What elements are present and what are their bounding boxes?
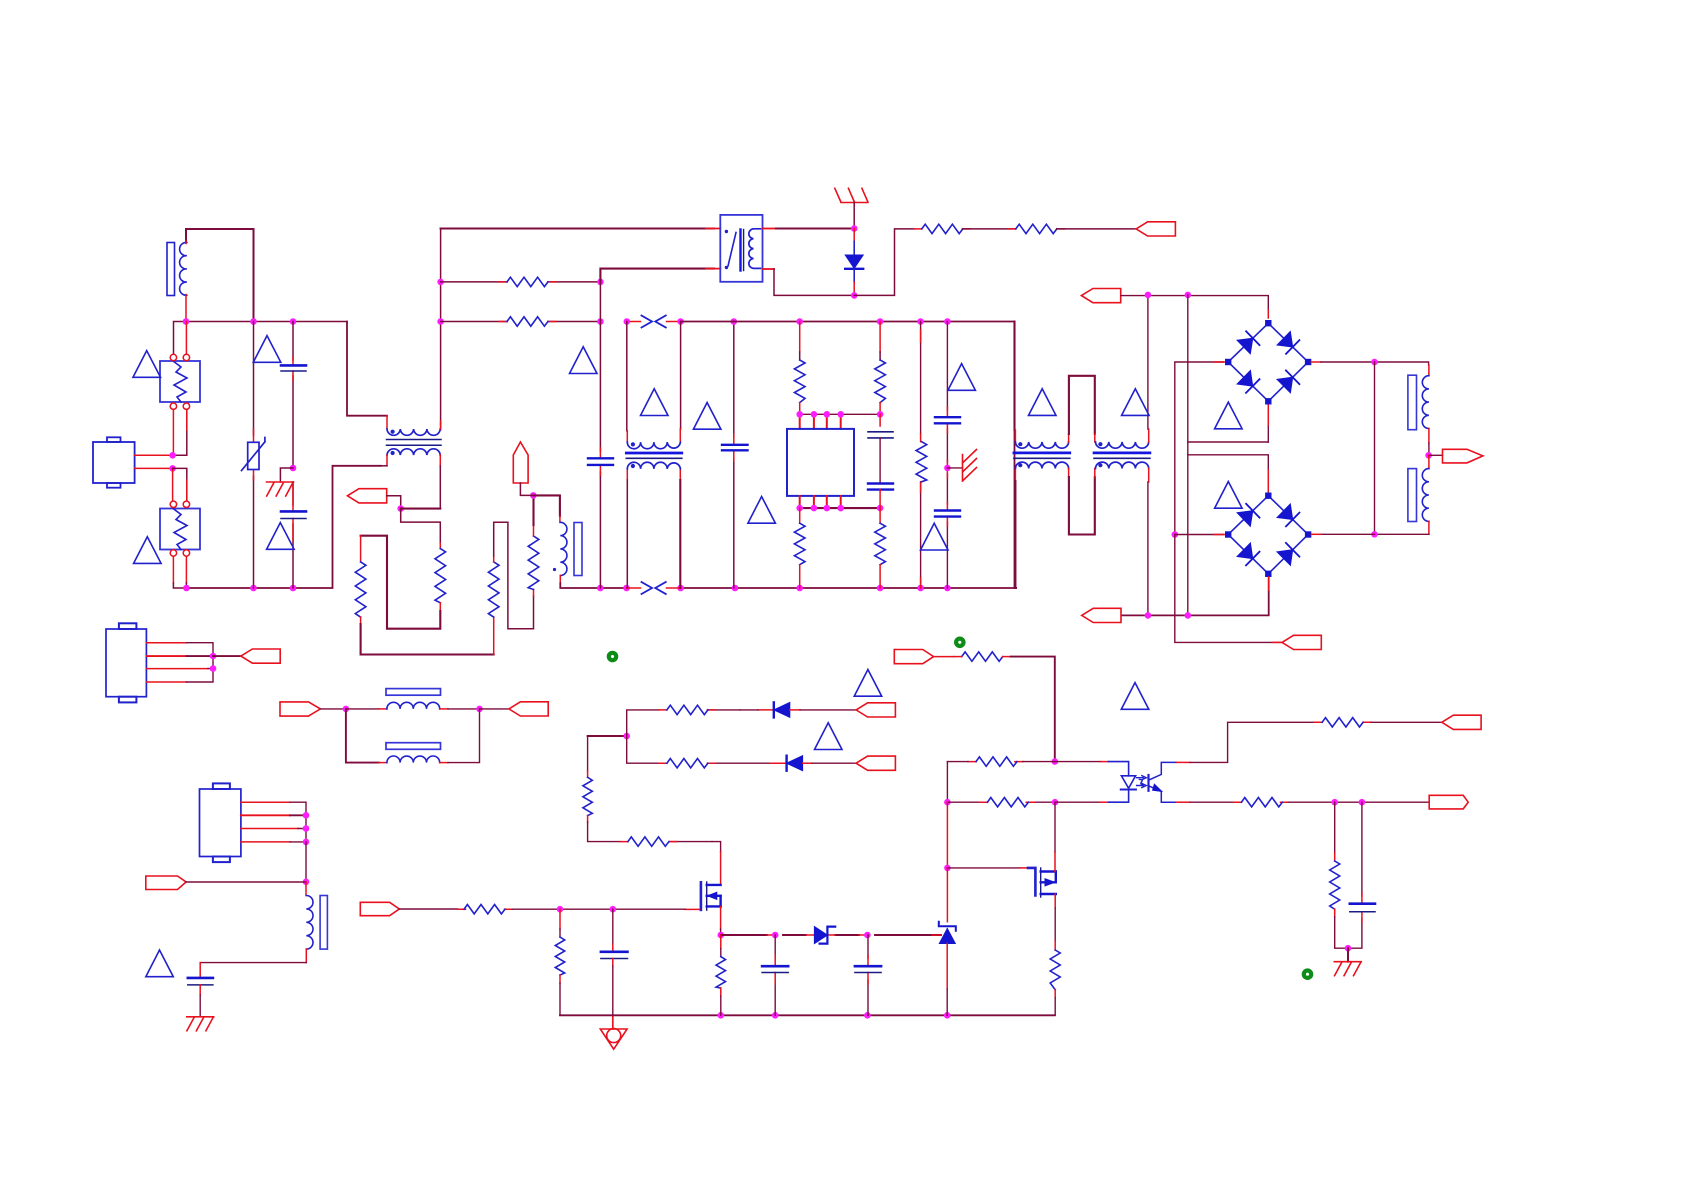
- MOSFET Q2: [1028, 868, 1035, 896]
- wire B2 left vertex branch: [1175, 534, 1224, 536]
- wire output node to L4: [1428, 455, 1430, 468]
- wire transformer T3 right terminals: [680, 322, 682, 430]
- wire R23 row: [947, 801, 1055, 803]
- node J3 bus junctions: [303, 812, 310, 819]
- wire inductor pins (red stubs): [185, 241, 187, 322]
- port PORT14 (right-pointing): [894, 650, 933, 664]
- wire Q2 gate row: [946, 802, 948, 868]
- capacitor C8: [188, 977, 213, 980]
- IC U1 box: [787, 429, 854, 496]
- wire R21 to opto feed corner: [1003, 656, 1011, 658]
- node opto feed junction: [1052, 758, 1059, 765]
- test point TP1: [609, 653, 616, 660]
- wire J1 pin2: [135, 467, 173, 469]
- connector J2 bottom tab: [119, 697, 136, 703]
- node bottom rail junction 3: [290, 585, 297, 592]
- wire L6 loop right: [440, 762, 448, 764]
- diode B1-D3 (left-bottom edge): [1228, 362, 1268, 401]
- wire choke bridge bottom (u-shape): [1068, 468, 1070, 477]
- wire B2 top vertex branch: [1188, 455, 1269, 470]
- wire R4 to port: [1057, 228, 1136, 230]
- node ladder junction: [397, 505, 404, 512]
- power ground flag PGND: [600, 1029, 627, 1049]
- wire bridge tie vertical: [1374, 362, 1376, 534]
- wire zener feed: [946, 868, 948, 922]
- transformer T3 bottom coil: [627, 462, 680, 469]
- capacitor C3: [868, 482, 893, 484]
- diode B2-D4 (bottom-right edge): [1268, 535, 1308, 574]
- inductor L6: [387, 756, 440, 763]
- wire choke T2 top right to feeder: [440, 424, 442, 429]
- choke T2 polarity dot bottom: [391, 451, 395, 455]
- wire port3 to junction: [520, 483, 533, 495]
- node diode bottom: [851, 292, 858, 299]
- wire X-cap column lower: [292, 482, 294, 588]
- node secondary rail junctions: [1145, 612, 1152, 619]
- wire transformer T3 left terminals: [626, 322, 628, 431]
- node B1 vertices: [1265, 320, 1271, 326]
- node L5 left junction: [343, 706, 350, 713]
- choke T4b bottom coil: [1096, 462, 1149, 468]
- pin IC bottom pins: [800, 496, 841, 508]
- node source rail junction C6: [864, 932, 871, 939]
- triangle marker TM7: [748, 497, 776, 524]
- wire Q2 source down through R27: [1054, 894, 1056, 908]
- wire port to junction: [186, 881, 306, 883]
- resistor R9 column x=799.7 upper: [799, 322, 801, 353]
- wire J2 pin1: [146, 642, 186, 644]
- inductor L1: [180, 242, 187, 295]
- wire F1 bottom pins to junction: [172, 410, 174, 456]
- wire x=600 vertical between junctions: [599, 282, 601, 322]
- wire L6 loop left: [346, 709, 379, 763]
- node Q1 source junction: [718, 932, 725, 939]
- wire thermistor bottom to mid rail: [559, 576, 561, 584]
- choke T4b core: [1094, 452, 1150, 455]
- triangle marker TB1: [1215, 402, 1243, 429]
- resistor R8 (ladder): [528, 536, 539, 590]
- port PORT16 (right-pointing): [1429, 795, 1468, 809]
- wire row2 to port: [812, 762, 856, 764]
- thermistor/inductor L2 coil: [560, 522, 567, 575]
- wire J3 pin1: [241, 801, 290, 803]
- wire step to chassis ground: [280, 468, 293, 482]
- port PORT3 (up-pointing): [513, 442, 528, 483]
- node J1 pin2 junction: [169, 465, 176, 472]
- wire secondary bottom rail: [1122, 578, 1269, 615]
- relay K1 core: [739, 230, 741, 271]
- wire choke T2 bottom left to bottom rail: [386, 455, 388, 466]
- wire F1 bottom right pin step: [173, 410, 187, 456]
- wire F1 top pins to rail: [185, 322, 187, 355]
- resistor R26 (to ground): [1334, 802, 1336, 853]
- wire J2 pin3: [146, 668, 208, 670]
- resistor R18: [464, 905, 505, 914]
- node feeder junction R2: [437, 318, 444, 325]
- chassis ground GND3 (rotated): [963, 450, 977, 482]
- wire R7 top to R8 bottom loop: [493, 556, 495, 562]
- connector J3 body: [200, 789, 241, 857]
- wire relay coil return rail: [600, 269, 714, 282]
- resistor R12 column x=880.1 lower: [879, 508, 881, 523]
- triangle marker TM14: [854, 670, 882, 697]
- connector J1 (AC inlet): [93, 442, 135, 483]
- chassis ground GND2 (above diode): [835, 188, 868, 202]
- wire L4 bottom to B2 right vertex: [1428, 521, 1430, 534]
- chassis ground GND5: [187, 1017, 214, 1031]
- relay K1 coil: [749, 229, 761, 269]
- node diode top: [851, 225, 858, 232]
- connector J2 top tab: [119, 623, 136, 629]
- resistor R19 (gate pull-down): [559, 909, 561, 929]
- relay K1 switch: [728, 233, 736, 267]
- diode D1 (relay flyback): [853, 229, 855, 242]
- port PORT11 (left-pointing): [856, 703, 895, 717]
- wire junction to R6 top: [401, 509, 441, 543]
- wire x=1187.8 vertical: [1187, 295, 1189, 616]
- pin F1-2: [183, 354, 189, 360]
- port PORT8 (left-pointing): [241, 649, 280, 663]
- node gate RC junction 1: [557, 906, 564, 913]
- wire R18 to Q1 gate with junctions: [512, 908, 685, 910]
- choke T4a polarity dots: [1018, 442, 1022, 446]
- resistor R11 column x=799.7 lower: [799, 508, 801, 523]
- triangle marker TB2: [1215, 482, 1243, 509]
- triangle marker TM8: [693, 403, 721, 430]
- wire B1 right vertex to L3: [1311, 361, 1321, 363]
- inductor L3 core bar: [1408, 375, 1417, 430]
- inductor L7 core bar: [320, 896, 327, 950]
- choke T2 top coil: [387, 429, 440, 435]
- diode D2: [773, 702, 775, 717]
- wire port to ladder junction: [387, 496, 401, 509]
- triangle marker TM5: [948, 364, 976, 391]
- resistor R1: [507, 277, 548, 286]
- wire choke T4b bottom-right down to rail: [1148, 468, 1150, 482]
- wire cap to chassis ground: [199, 985, 201, 995]
- port PORT4 (DC+, left-pointing): [1081, 289, 1120, 303]
- wire R24 to port: [1371, 721, 1442, 723]
- pin F2-2: [183, 501, 189, 507]
- transformer T3 polarity dots: [631, 442, 635, 446]
- node Q2 drain junction: [1052, 799, 1059, 806]
- port PORT2 (EMI, left-pointing): [347, 489, 386, 503]
- inductor L3: [1422, 376, 1429, 429]
- wire Q1 source down: [720, 906, 722, 929]
- node B2 left junction: [1172, 531, 1179, 538]
- node feeder junction R1: [437, 279, 444, 286]
- diode B2-D2 (top-right edge): [1268, 496, 1308, 535]
- node rail junction 3: [290, 318, 297, 325]
- wire bottom rail left section: [186, 466, 381, 588]
- triangle marker TM11: [641, 389, 669, 416]
- pin F1-1: [170, 354, 176, 360]
- capacitor CX2 column: [599, 322, 601, 589]
- wire diode bottom loop up to R3 row: [854, 229, 914, 296]
- inductor L1 core bar: [167, 243, 175, 296]
- resistor R21: [962, 652, 1003, 661]
- wire opto emitter out: [1176, 801, 1190, 803]
- wire R1 row: [441, 281, 601, 283]
- capacitor CX1: [281, 364, 306, 367]
- wire R2 row: [441, 321, 601, 323]
- node source rail junction C5: [772, 932, 779, 939]
- wire J1 pin1: [135, 454, 173, 456]
- node IC bottom pin junctions: [796, 505, 803, 512]
- resistor R15: [667, 759, 708, 768]
- optocoupler U2 light arrows: [1137, 776, 1147, 780]
- spark gap SG2 (bottom): [627, 587, 681, 589]
- resistor R3: [922, 224, 963, 233]
- capacitor C5: [774, 935, 776, 1015]
- wire source rail: [721, 934, 941, 936]
- wire relay to diode top rail: [763, 228, 777, 230]
- wire MOV column: [253, 322, 255, 589]
- wire opto LED cathode row: [1055, 801, 1101, 803]
- port PORT12 (left-pointing): [856, 756, 895, 770]
- capacitor CY1: [281, 510, 306, 513]
- wire R16 bottom to R17: [587, 816, 589, 822]
- wire R8 top to PSON port junction: [533, 525, 535, 536]
- capacitor C2 stack x=880.1: [879, 414, 881, 426]
- wire IC bottom pin bus: [800, 507, 880, 509]
- connector J3 bottom tab: [213, 857, 230, 863]
- wire IC top pin bus: [800, 413, 880, 415]
- wire R5 bottom to R7 bottom: [360, 617, 362, 624]
- resistor R13 column x=920.6: [920, 322, 922, 589]
- wire port to R21: [934, 656, 954, 658]
- diode D4 (schottky): [814, 927, 827, 944]
- resistor R27: [1050, 950, 1060, 990]
- wire junction down to L7: [305, 882, 307, 896]
- pin IC top pins: [800, 414, 841, 429]
- triangle marker TM12: [1029, 389, 1057, 416]
- wire choke T4b top-right up to DC rail: [1148, 429, 1150, 442]
- wire X-cap column upper: [292, 322, 294, 469]
- wire to chassis ground right: [947, 467, 962, 469]
- triangle marker TM4: [134, 537, 162, 564]
- wire port to L5: [320, 708, 346, 710]
- inductor L5: [387, 702, 440, 709]
- wire port to R18: [399, 908, 457, 910]
- wire J2 bus to port: [213, 655, 241, 657]
- node mid-rail junctions: [597, 585, 604, 592]
- node output junction: [1425, 452, 1432, 459]
- choke T4a core: [1014, 452, 1070, 455]
- wire top rail center section: [681, 321, 1015, 323]
- triangle marker TM6: [921, 523, 949, 550]
- node CY junction: [944, 465, 951, 472]
- node rail junction 1: [183, 318, 190, 325]
- wire choke left column: [1013, 322, 1015, 431]
- wire primary ground rail: [560, 1014, 1055, 1016]
- wire R17 to Q1 drain: [712, 842, 721, 852]
- wire B1 left vertex branch: [1175, 362, 1224, 535]
- wire down branch to row2: [627, 736, 770, 763]
- resistor R7 (ladder): [488, 562, 499, 617]
- optocoupler U2 transistor: [1147, 775, 1149, 791]
- node spark gap top junctions: [624, 318, 631, 325]
- spark gap SG1 (top): [627, 321, 681, 323]
- wire B1 bottom vertex branch: [1188, 441, 1269, 443]
- wire junction to F2 right pin: [173, 468, 187, 500]
- node bottom rail junction 1: [183, 585, 190, 592]
- wire choke bridge top (n-shape): [1068, 434, 1070, 442]
- wire opto collector out: [1176, 761, 1190, 763]
- resistor R20 (below Q1 source): [720, 935, 722, 949]
- wire AC L rail y=321.5: [174, 322, 348, 355]
- triangle marker TM3: [267, 523, 295, 550]
- node J2 bus junctions: [210, 653, 217, 660]
- wire relay bottom pin loop: [763, 268, 775, 270]
- wire junction to F2 left pin: [172, 468, 174, 500]
- resistor R4: [1016, 224, 1057, 233]
- fuse F1 box: [160, 361, 200, 402]
- choke T4a bottom coil: [1015, 462, 1068, 468]
- port PORT1 (left-pointing): [1136, 222, 1175, 236]
- varistor RV1: [248, 442, 259, 469]
- wire junction to thermistor top: [533, 495, 560, 516]
- resistor R6 (ladder): [435, 549, 446, 603]
- thermistor L2 polarity dot: [553, 568, 556, 571]
- MOSFET Q1: [700, 882, 703, 910]
- choke T2 polarity dot top: [391, 430, 395, 434]
- wire x=947.4 vertical: [946, 762, 948, 803]
- diode B1-D1 (left-top edge): [1228, 323, 1268, 362]
- node RC junction 2: [1359, 799, 1366, 806]
- choke T4a top coil: [1015, 442, 1068, 448]
- capacitor C6: [867, 935, 869, 1015]
- wire between R3 and R4: [963, 228, 1016, 230]
- triangle marker TM17: [146, 950, 174, 977]
- node rail junction 2: [250, 318, 257, 325]
- wire J2 pin2: [146, 655, 186, 657]
- node RC junction 1: [1331, 799, 1338, 806]
- port PORT5 (-12V, left-pointing): [1282, 635, 1321, 649]
- diode B1-D4 (bottom-right edge): [1268, 362, 1308, 401]
- choke T4b polarity dots: [1098, 442, 1102, 446]
- wire J3 bus down to port junction: [305, 842, 307, 882]
- inductor L7: [306, 896, 313, 950]
- wire L5 right to port: [440, 708, 448, 710]
- capacitor CY2 column x=947.4: [946, 322, 948, 589]
- choke T2 bottom coil: [387, 449, 440, 455]
- node R23 left junction: [944, 799, 951, 806]
- wire DC+ top rail: [1121, 296, 1268, 310]
- triangle marker TM2: [253, 336, 280, 363]
- wire ground stub below rail: [612, 1015, 614, 1029]
- inductor L4 core bar: [1408, 469, 1417, 522]
- wire L3 bottom to output node: [1428, 429, 1430, 444]
- connector J3 top tab: [213, 783, 230, 789]
- resistor R5 (ladder): [355, 562, 366, 617]
- node bottom rail junction 2: [250, 585, 257, 592]
- resistor R2: [507, 317, 548, 326]
- choke T4b top coil: [1096, 442, 1149, 448]
- wire Q2 drain up: [1054, 802, 1056, 852]
- diode D3: [785, 756, 787, 771]
- node R1 right junction: [597, 279, 604, 286]
- port PORT6 (output, right-pointing): [1443, 449, 1483, 463]
- node thermistor junction: [530, 492, 537, 499]
- wire choke feeder vertical x=440: [440, 229, 442, 425]
- wire L7 bottom loop to cap: [305, 949, 307, 963]
- test point TP3: [1304, 971, 1311, 978]
- wire row1 mid: [740, 709, 758, 711]
- wire from inductor top loop to MOV column: [186, 229, 254, 322]
- node X-cap mid junction: [290, 465, 297, 472]
- node L5 right junction: [476, 706, 483, 713]
- wire rail corner down to choke top-left: [347, 322, 387, 416]
- triangle marker TM15: [815, 723, 843, 750]
- port PORT13 (right-pointing): [360, 902, 399, 915]
- resistor R14: [667, 705, 708, 714]
- capacitor C4 (gate): [612, 909, 614, 944]
- node L3 rail junction: [1371, 359, 1378, 366]
- resistor R22: [976, 757, 1017, 766]
- wire center node tree: [588, 735, 627, 737]
- transformer T3 core: [626, 452, 682, 455]
- node B2 vertices: [1265, 493, 1271, 499]
- wire Q1 gate: [685, 908, 700, 910]
- node IC top pin junctions: [796, 411, 803, 418]
- resistor R16: [583, 777, 592, 815]
- node R2 right junction: [597, 318, 604, 325]
- capacitor C7 (to ground): [1348, 802, 1362, 948]
- capacitor CX3 column x=735: [733, 322, 735, 589]
- inductor L4: [1422, 469, 1429, 522]
- inductor L5 core bar: [386, 689, 441, 696]
- port PORT15 (left-pointing): [1442, 715, 1481, 729]
- transformer T3 top coil: [627, 442, 680, 449]
- fuse F2 element: [173, 509, 187, 550]
- wire stub to chassis ground: [1347, 948, 1349, 962]
- optocoupler U2 LED: [1109, 762, 1129, 803]
- node top rail x=733.8: [731, 318, 738, 325]
- wire choke T2 bottom right down: [439, 455, 441, 466]
- node ground rail junctions: [718, 1012, 725, 1019]
- wire opto LED anode row: [1055, 761, 1101, 763]
- wire row1 to port: [800, 709, 856, 711]
- node Q2 gate junction: [944, 865, 951, 872]
- pin F1-4: [183, 403, 189, 409]
- inductor L6 core bar: [386, 743, 441, 750]
- node DC+ rail junctions: [1145, 292, 1152, 299]
- node RC ground junction: [1345, 945, 1352, 952]
- port PORT17 (right-pointing): [146, 876, 186, 890]
- triangle marker TM16: [1121, 683, 1149, 710]
- node L4 rail junction: [1371, 531, 1378, 538]
- pin F2-4: [183, 550, 189, 556]
- resistor R10 column x=880.1 upper: [879, 322, 881, 353]
- relay K1 box: [720, 215, 762, 282]
- thermistor L2 core bar: [574, 523, 582, 576]
- connector J1 bottom tab: [107, 483, 121, 488]
- wire J3 pin3: [241, 828, 298, 830]
- wire junction to choke bottom-right: [401, 508, 441, 510]
- chassis ground GND4: [1334, 962, 1361, 976]
- resistor R23: [987, 798, 1028, 807]
- resistor R24: [1322, 718, 1363, 727]
- wire F2 bottom left pin down: [172, 556, 174, 583]
- fuse F2 box: [160, 509, 200, 550]
- port PORT10 (left-pointing): [509, 702, 548, 716]
- wire -12V branch: [1175, 535, 1282, 643]
- capacitor CY3: [935, 509, 960, 511]
- wire top rail to relay: [441, 227, 714, 229]
- wire J3 pin2: [241, 814, 290, 816]
- wire ground stem to diode node: [853, 203, 855, 229]
